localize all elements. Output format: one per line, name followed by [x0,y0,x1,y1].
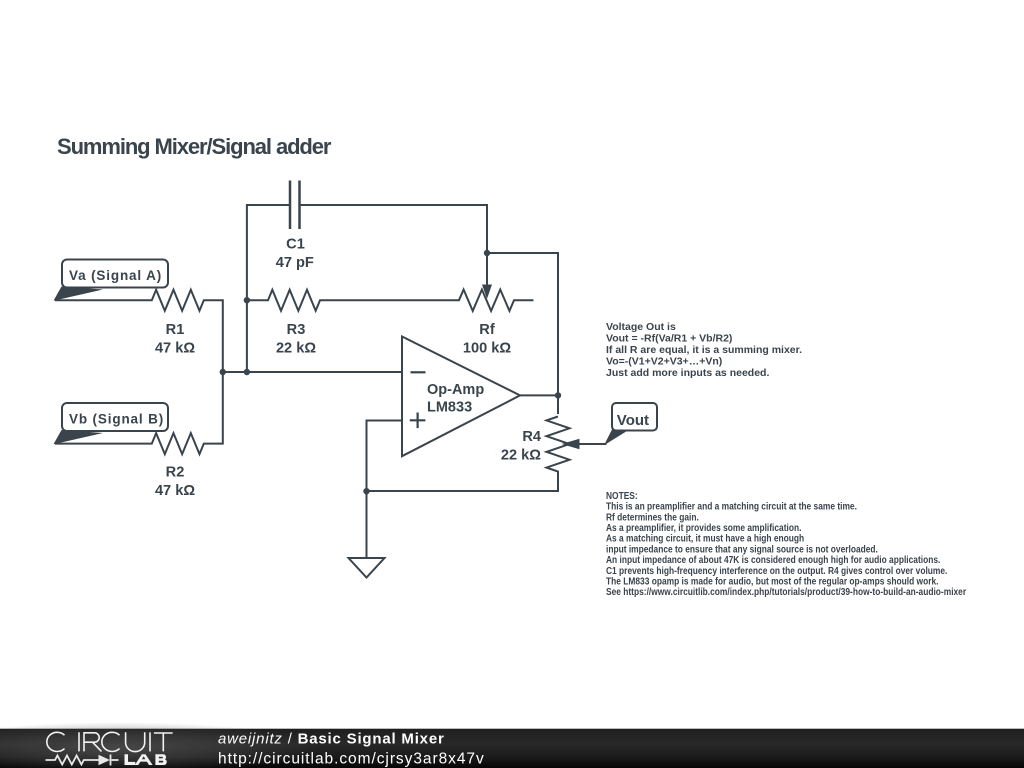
svg-text:Summing Mixer/Signal adder: Summing Mixer/Signal adder [57,134,332,159]
svg-text:aweijnitz / Basic Signal Mixer: aweijnitz / Basic Signal Mixer [218,731,445,748]
svg-text:47 pF: 47 pF [276,255,314,271]
svg-text:Vo=-(V1+V2+V3+…+Vn): Vo=-(V1+V2+V3+…+Vn) [606,356,722,368]
svg-text:If all R are equal, it is a su: If all R are equal, it is a summing mixe… [606,344,802,356]
svg-text:Vout: Vout [617,412,649,429]
svg-text:Voltage Out is: Voltage Out is [606,321,676,333]
svg-text:R3: R3 [287,322,306,338]
svg-text:See https://www.circuitlib.com: See https://www.circuitlib.com/index.php… [606,586,966,598]
svg-text:http://circuitlab.com/cjrsy3ar: http://circuitlab.com/cjrsy3ar8x47v [218,751,485,768]
svg-text:100 kΩ: 100 kΩ [463,340,512,356]
svg-text:47 kΩ: 47 kΩ [155,483,195,499]
svg-text:Vb (Signal B): Vb (Signal B) [69,411,164,426]
svg-text:22 kΩ: 22 kΩ [501,447,541,463]
svg-text:Vout = -Rf(Va/R1 + Vb/R2): Vout = -Rf(Va/R1 + Vb/R2) [606,333,732,345]
svg-text:LM833: LM833 [427,400,472,416]
svg-text:C1: C1 [286,237,305,253]
svg-text:Just add more inputs as needed: Just add more inputs as needed. [606,367,769,379]
svg-text:Op-Amp: Op-Amp [427,382,484,398]
svg-text:R4: R4 [522,429,542,445]
svg-text:R2: R2 [166,464,185,480]
svg-text:47 kΩ: 47 kΩ [155,340,195,356]
svg-text:Rf: Rf [479,322,495,338]
svg-text:Va (Signal A): Va (Signal A) [69,268,162,283]
svg-text:R1: R1 [166,322,185,338]
svg-text:22 kΩ: 22 kΩ [276,340,316,356]
